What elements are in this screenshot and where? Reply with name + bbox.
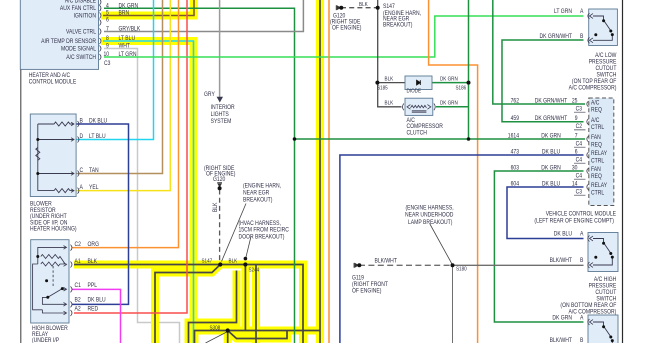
- svg-text:C3: C3: [576, 189, 583, 196]
- module pin arcs: [100, 0, 102, 60]
- splice dot S308: [226, 328, 230, 332]
- wire highlight halo BLK S308 stub down: [224, 331, 232, 343]
- svg-text:DK GRN: DK GRN: [440, 101, 458, 107]
- high blower relay contact dots: [36, 255, 39, 258]
- svg-text:DK GRN: DK GRN: [541, 165, 561, 172]
- svg-text:BLK: BLK: [385, 76, 394, 82]
- svg-text:S185: S185: [377, 85, 388, 91]
- svg-text:(LEFT REAR OF ENGINE COMPT): (LEFT REAR OF ENGINE COMPT): [534, 218, 614, 225]
- svg-text:C3: C3: [576, 106, 583, 113]
- wire LT BLU core air temp door sensor: [103, 41, 194, 343]
- wire YEL bus to blower resistor A: [76, 0, 170, 191]
- a/c low pressure cutout switch box: [589, 9, 618, 46]
- svg-text:7: 7: [106, 26, 109, 33]
- wire LT BLU bus to blower resistor D: [76, 0, 154, 140]
- svg-text:IGNITION: IGNITION: [74, 12, 96, 19]
- cooling fan switch contacts bottom: [593, 322, 612, 343]
- wire DK GRN aux fan ctrl pin 4: [104, 8, 295, 343]
- svg-text:ORG: ORG: [88, 241, 100, 248]
- switch pin arcs and arrows: [588, 13, 593, 325]
- vcm wire color labels: [535, 98, 568, 188]
- vcm wire number labels: [508, 98, 520, 188]
- wire BLK/WHT S180 vertical down: [452, 265, 454, 343]
- svg-text:INTERIOR: INTERIOR: [211, 104, 236, 111]
- wire DK GRN/WHT 459 a/c ctrl from low pressure switch B: [502, 40, 584, 122]
- wire DK GRN diode to S186: [432, 82, 469, 84]
- svg-text:8: 8: [106, 35, 109, 42]
- wire BLK core branch x256: [255, 265, 257, 343]
- svg-text:BREAKOUT): BREAKOUT): [383, 21, 412, 28]
- leader line lamp breakout to S180: [430, 224, 452, 264]
- svg-text:TAN: TAN: [89, 167, 99, 174]
- splice dot S186: [467, 81, 471, 85]
- svg-text:FAN: FAN: [591, 166, 601, 173]
- svg-text:BRN: BRN: [119, 10, 130, 17]
- svg-text:C3: C3: [104, 60, 111, 67]
- junction dot S186 vertical at 1614: [467, 137, 471, 141]
- svg-text:MODE SIGNAL: MODE SIGNAL: [61, 45, 96, 52]
- wire highlight halo BLK S244 down: [241, 265, 249, 331]
- svg-text:S186: S186: [456, 85, 467, 91]
- wire GRY/BLK valve ctrl pin 7: [104, 0, 303, 32]
- svg-text:B2: B2: [75, 297, 82, 304]
- blower resistor junction dots: [36, 138, 39, 141]
- svg-text:DK BLU: DK BLU: [542, 181, 560, 188]
- svg-text:603: 603: [511, 165, 520, 172]
- splice dot G120 top: [339, 6, 343, 10]
- junction dot 1614 at dk grn vertical: [293, 137, 297, 141]
- wire highlight halo BLK relay A1 ground feed: [74, 265, 303, 343]
- splice dot S244: [243, 262, 247, 266]
- wire BLK/WHT S180 to high pressure switch B: [453, 264, 584, 266]
- diode symbol: [417, 80, 421, 85]
- svg-text:GRY/BLK: GRY/BLK: [119, 26, 141, 33]
- wire DK BLU 473 relay ctrl: [340, 155, 584, 343]
- svg-text:459: 459: [511, 115, 520, 122]
- svg-text:25: 25: [572, 98, 578, 105]
- svg-text:(UNDER I/P: (UNDER I/P: [32, 337, 59, 343]
- svg-text:DK BLU: DK BLU: [89, 117, 107, 124]
- wire highlight halo BLK S308 lower jog: [228, 331, 287, 339]
- svg-text:6: 6: [106, 17, 109, 24]
- high blower relay pin arrows: [64, 246, 67, 315]
- edge of adjacent module at right: [622, 0, 624, 343]
- svg-text:C4: C4: [576, 141, 583, 148]
- svg-text:10: 10: [104, 51, 110, 58]
- wire BLK core lower branch from S147: [155, 265, 220, 343]
- a/c compressor clutch connector arcs: [403, 104, 436, 111]
- wire WHT from heater module pin 9: [104, 49, 180, 343]
- svg-text:S308: S308: [210, 326, 221, 332]
- wire BLK S185 to diode: [377, 82, 405, 84]
- blower resistor box: [30, 114, 76, 197]
- svg-text:CTRL: CTRL: [591, 189, 605, 196]
- svg-text:6: 6: [575, 149, 578, 156]
- wire BLK core S244 down: [244, 265, 246, 331]
- wire DK BLU blower resistor B to relay B2: [72, 124, 129, 304]
- wire BLK core S308 lower jog: [228, 331, 287, 339]
- wire DK GRN 603 fan req to cooling fan switch: [494, 171, 583, 322]
- svg-text:G120: G120: [213, 176, 226, 183]
- svg-text:9: 9: [106, 43, 109, 50]
- wire highlight halo BLK lower branch from S147: [155, 265, 220, 343]
- a/c high pressure switch caption: [560, 276, 616, 316]
- svg-text:BLK/WHT: BLK/WHT: [550, 337, 573, 343]
- svg-text:REQ: REQ: [591, 141, 602, 148]
- svg-text:BLK: BLK: [359, 2, 368, 8]
- svg-text:BREAKOUT): BREAKOUT): [243, 196, 272, 203]
- wire highlight halo BRN ignition pin 5: [101, 0, 194, 16]
- svg-text:30: 30: [572, 165, 578, 172]
- svg-text:DK BLU: DK BLU: [554, 231, 572, 238]
- ground symbol G120 top: [336, 5, 340, 10]
- svg-text:A/C COMPRESSOR): A/C COMPRESSOR): [569, 308, 617, 315]
- svg-text:OF ENGINE): OF ENGINE): [332, 24, 361, 31]
- svg-text:PPL: PPL: [88, 282, 98, 289]
- svg-text:DIODE: DIODE: [407, 89, 422, 95]
- svg-text:DK GRN: DK GRN: [440, 76, 458, 82]
- svg-text:RED: RED: [88, 306, 99, 313]
- wire BLK core relay A1 ground feed: [74, 265, 303, 343]
- svg-text:S244: S244: [249, 267, 260, 273]
- svg-text:(ENGINE HARN,: (ENGINE HARN,: [243, 182, 281, 189]
- wire BLK core S308 stub down: [227, 331, 229, 343]
- svg-text:C4: C4: [576, 157, 583, 164]
- wire BLK/WHT dashed G119 to S180: [359, 264, 453, 266]
- svg-text:DK BLU: DK BLU: [88, 297, 106, 304]
- wire BLK dashed G120 to S147 top: [341, 7, 378, 9]
- svg-text:LT GRN: LT GRN: [119, 51, 137, 58]
- svg-text:BLK: BLK: [212, 202, 219, 212]
- svg-text:B: B: [580, 257, 583, 264]
- wire highlight halo LT BLU air temp door sensor pin 8: [101, 41, 194, 343]
- wire DK BLU 604 relay ctrl to high pressure switch A: [507, 187, 584, 239]
- svg-text:GRY: GRY: [204, 91, 215, 98]
- svg-text:14: 14: [572, 181, 578, 188]
- svg-text:RELAY: RELAY: [591, 182, 607, 189]
- svg-text:BLK: BLK: [88, 258, 98, 265]
- vehicle control module dashed box: [589, 98, 614, 206]
- leader line EGR breakout to S147: [222, 204, 247, 262]
- svg-text:CONTROL MODULE: CONTROL MODULE: [29, 79, 76, 86]
- svg-text:LT GRN: LT GRN: [554, 8, 572, 15]
- wire DK GRN clutch to S186 vertical: [436, 106, 469, 108]
- svg-text:B: B: [580, 337, 583, 343]
- blower resistor internals: [36, 122, 74, 193]
- wire ORG vertical bus x329: [328, 0, 330, 343]
- wire RED bus to relay A2: [74, 0, 187, 313]
- svg-text:AIR TEMP DR SENSOR: AIR TEMP DR SENSOR: [41, 38, 96, 45]
- svg-text:DK GRN: DK GRN: [541, 133, 561, 140]
- svg-text:LT BLU: LT BLU: [119, 35, 136, 42]
- svg-text:(ENGINE HARNESS,: (ENGINE HARNESS,: [406, 204, 454, 211]
- high blower relay box: [31, 240, 69, 323]
- a/c high pressure cutout switch contacts: [593, 239, 612, 266]
- a/c compressor clutch box: [405, 98, 433, 115]
- svg-text:LAMP BREAKOUT): LAMP BREAKOUT): [408, 219, 452, 226]
- wire BLK dashed G120 to S147 vertical: [219, 190, 221, 265]
- wire highlight halo BLK vertical x320: [316, 0, 324, 343]
- wire GRY to interior lights: [219, 0, 221, 97]
- splice dot S180: [451, 263, 455, 267]
- leader line HVAC harness to S244: [246, 237, 251, 258]
- svg-text:A1: A1: [75, 258, 82, 265]
- leader dot above S244: [244, 257, 248, 261]
- svg-text:C: C: [80, 167, 84, 174]
- svg-text:OF ENGINE): OF ENGINE): [352, 287, 381, 294]
- svg-text:604: 604: [511, 181, 520, 188]
- wire BLK S147 vertical to S185 and clutch: [378, 0, 402, 107]
- a/c low pressure switch caption: [569, 52, 617, 92]
- splice dot S185: [375, 81, 379, 85]
- svg-text:FAN: FAN: [591, 134, 601, 141]
- blower resistor pin arcs: [78, 121, 80, 194]
- a/c high pressure cutout switch box: [588, 233, 618, 272]
- splice dot G119: [357, 263, 361, 267]
- wire BLK core branch x236: [189, 271, 237, 343]
- svg-text:D: D: [80, 133, 84, 140]
- wire highlight halo BLK branch x236: [189, 271, 237, 343]
- svg-text:4: 4: [106, 2, 109, 9]
- wire DK GRN S186 vertical: [468, 0, 470, 139]
- svg-text:REQ: REQ: [591, 107, 602, 114]
- wire DK GRN/WHT 762 a/c req: [493, 0, 585, 104]
- svg-text:A/C DISABLE: A/C DISABLE: [65, 0, 96, 5]
- svg-text:CTRL: CTRL: [591, 124, 605, 131]
- edge of adjacent module at left: [20, 0, 22, 343]
- svg-text:A/C: A/C: [591, 100, 600, 107]
- svg-text:9: 9: [575, 115, 578, 122]
- splice dot G120 mid: [218, 186, 222, 190]
- leader line from S308 down left: [206, 332, 228, 343]
- svg-text:7: 7: [575, 133, 578, 140]
- wire BLK core vertical x320: [319, 0, 321, 343]
- svg-text:S180: S180: [456, 266, 467, 272]
- svg-text:BLK: BLK: [385, 101, 394, 107]
- svg-text:BLK/WHT: BLK/WHT: [375, 257, 398, 264]
- svg-text:CTRL: CTRL: [591, 157, 605, 164]
- svg-text:SYSTEM: SYSTEM: [211, 118, 232, 125]
- wire BLK core S308 horizontal: [195, 331, 321, 343]
- heater and a/c control module box: [20, 0, 98, 69]
- wire TAN bus to blower resistor C: [76, 0, 163, 174]
- ground symbol G120 mid: [217, 183, 222, 187]
- ground symbol G119: [354, 263, 358, 268]
- svg-text:DK BLU: DK BLU: [542, 149, 560, 156]
- svg-text:NEAR UNDERHOOD: NEAR UNDERHOOD: [405, 212, 454, 219]
- svg-text:HEATER HOUSING): HEATER HOUSING): [30, 226, 77, 233]
- wire PPL relay C1: [72, 289, 121, 343]
- svg-text:1614: 1614: [508, 133, 520, 140]
- cooling fan pressure switch box bottom: [588, 315, 618, 343]
- svg-text:REQ: REQ: [591, 173, 602, 180]
- svg-text:DK GRN/WHT: DK GRN/WHT: [535, 115, 568, 122]
- svg-text:VALVE CTRL: VALVE CTRL: [66, 28, 96, 35]
- svg-text:DOOR BREAKOUT): DOOR BREAKOUT): [239, 233, 285, 240]
- svg-text:C2: C2: [576, 123, 583, 130]
- high blower relay pin arcs: [71, 245, 73, 316]
- svg-text:C1: C1: [75, 282, 82, 289]
- wire DK GRN 1614 fan req: [295, 138, 586, 140]
- svg-text:YEL: YEL: [89, 184, 99, 191]
- svg-text:S147: S147: [202, 258, 213, 264]
- svg-text:CLUTCH: CLUTCH: [407, 129, 427, 136]
- svg-text:B: B: [80, 117, 83, 124]
- wire BRN core ignition: [103, 0, 194, 16]
- svg-text:762: 762: [511, 98, 520, 105]
- svg-text:DK GRN/WHT: DK GRN/WHT: [535, 98, 568, 105]
- svg-text:A/C: A/C: [591, 117, 600, 124]
- wire highlight halo BLK branch at x256: [252, 265, 260, 343]
- svg-text:A/C SWITCH: A/C SWITCH: [66, 54, 96, 61]
- svg-text:RELAY: RELAY: [591, 150, 607, 157]
- splice dot S147 top: [376, 6, 380, 10]
- svg-text:A/C COMPRESSOR): A/C COMPRESSOR): [569, 84, 617, 91]
- high blower relay internals: [33, 247, 67, 313]
- vcm connector labels: [576, 106, 583, 196]
- svg-text:LT BLU: LT BLU: [89, 133, 106, 140]
- vcm connector label rules: [574, 112, 586, 195]
- wire ORG top feed to x477: [429, 0, 478, 343]
- blower resistor pin arrows: [71, 122, 74, 192]
- svg-text:B: B: [580, 33, 583, 40]
- wire ORG bus to relay C2: [72, 0, 179, 248]
- wire LT GRN a/c switch pin 10: [104, 16, 584, 57]
- splice dot S147: [218, 262, 222, 266]
- heater module pin name labels: [41, 0, 96, 61]
- svg-text:WHT: WHT: [119, 43, 131, 50]
- a/c low pressure cutout switch contacts: [593, 16, 612, 40]
- svg-text:DK GRN/WHT: DK GRN/WHT: [540, 33, 573, 40]
- svg-text:LIGHTS: LIGHTS: [211, 111, 229, 118]
- svg-text:5: 5: [106, 10, 109, 17]
- svg-text:NEAR EGR: NEAR EGR: [243, 189, 270, 196]
- wire highlight halo BLK S308 horizontal: [195, 331, 321, 343]
- diode box: [405, 76, 432, 90]
- svg-text:C4: C4: [576, 173, 583, 180]
- svg-text:DK GRN: DK GRN: [119, 2, 139, 9]
- arrow GRY interior lights: [217, 97, 223, 103]
- svg-text:VEHICLE CONTROL MODULE: VEHICLE CONTROL MODULE: [546, 211, 616, 218]
- svg-text:C2: C2: [75, 241, 82, 248]
- svg-text:DK GRN: DK GRN: [552, 314, 572, 321]
- svg-text:473: 473: [511, 149, 520, 156]
- svg-text:AUX FAN CTRL: AUX FAN CTRL: [60, 5, 97, 12]
- a/c compressor clutch coil symbol: [407, 105, 431, 113]
- svg-text:BLK: BLK: [229, 259, 238, 265]
- vcm pin arcs: [587, 101, 589, 190]
- svg-text:A2: A2: [75, 306, 82, 313]
- svg-text:BLK/WHT: BLK/WHT: [550, 257, 573, 264]
- vcm pin numbers: [572, 98, 578, 188]
